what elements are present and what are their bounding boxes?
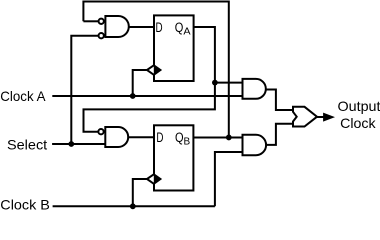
wire QB output to B2 input (194, 136, 243, 138)
svg-text:B: B (184, 136, 191, 147)
clock symbol U1 filled half (154, 65, 162, 76)
flip-flop U2 box (154, 125, 193, 190)
wire Clock B up to B2 input (215, 152, 243, 206)
flip-flop U1 box (154, 15, 194, 81)
svg-text:Output: Output (338, 98, 380, 114)
junction dot Select (68, 141, 74, 147)
svg-text:Select: Select (7, 136, 47, 152)
wire A2 output to OR input (267, 90, 294, 111)
wire Clock A main (52, 95, 242, 97)
wire Clock A branch to FFA clock (133, 70, 147, 96)
svg-text:Q: Q (175, 130, 184, 145)
wire QB feedback top run (83, 2, 228, 138)
clock symbol U2 diamond (147, 174, 160, 184)
wire B2 output to OR input (267, 124, 294, 145)
bubble A1 input 1 (99, 19, 104, 24)
wire Select main (52, 143, 105, 145)
clock symbol U2 filled half (154, 174, 162, 185)
and-gate B1 body (105, 127, 128, 147)
and-gate B2 body (243, 135, 267, 155)
wire B1 output to FFB D (128, 136, 154, 138)
bubble A1 input 2 (99, 33, 104, 38)
and-gate A2 body (243, 79, 266, 99)
svg-text:D: D (156, 20, 163, 35)
svg-text:Clock A: Clock A (0, 88, 46, 104)
wire Clock B branch to FFB clock (133, 179, 147, 206)
wire OR output to arrow (317, 116, 326, 118)
wire Select branch up to A1 (71, 36, 98, 144)
junction dot Clock A (130, 93, 136, 99)
svg-text:Clock: Clock (340, 115, 377, 131)
wire A1 top input stub (83, 20, 98, 22)
svg-text:D: D (156, 130, 163, 145)
wire Clock B main (53, 205, 215, 207)
svg-text:A: A (183, 26, 190, 38)
junction dot QA (212, 80, 218, 86)
svg-text:Clock B: Clock B (0, 196, 50, 211)
svg-text:Q: Q (175, 20, 184, 35)
junction dot Clock B (130, 203, 136, 209)
wire QA branch to A2 input (215, 82, 243, 84)
and-gate A1 body (105, 16, 128, 37)
wire A1 output to FFA D (128, 26, 154, 28)
bubble B1 input 1 (98, 129, 103, 134)
or-gate U3 body (293, 107, 317, 127)
wire QA output feedback to B1 (84, 27, 215, 132)
arrowhead output (323, 113, 335, 122)
junction dot QB (226, 135, 232, 141)
clock symbol U1 diamond (147, 65, 160, 75)
